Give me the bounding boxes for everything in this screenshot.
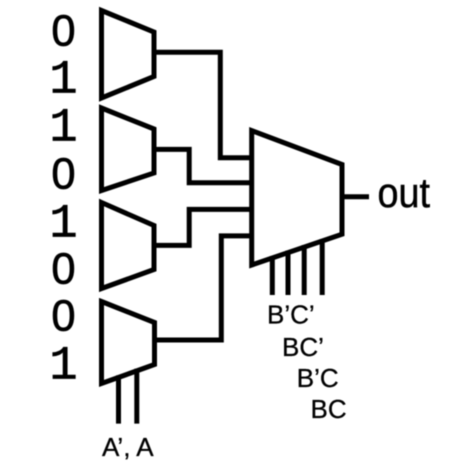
select line B'C' (U5 sel0) [270, 256, 275, 295]
wire U1 out to U5 in0 [154, 52, 252, 158]
wire U5 output [342, 194, 369, 199]
wire U2 out to U5 in1 [154, 149, 252, 182]
svg-text:out: out [378, 169, 431, 216]
svg-text:1: 1 [49, 103, 77, 156]
mux U4 (2:1) [102, 302, 155, 384]
wire U3 out to U5 in2 [154, 209, 252, 245]
wire U4 out to U5 in3 [155, 236, 252, 340]
svg-text:B’C’: B’C’ [267, 299, 315, 329]
svg-text:0: 0 [51, 293, 75, 341]
svg-text:B’C: B’C [297, 363, 339, 393]
svg-text:0: 0 [51, 8, 75, 56]
mux U1 (2:1) [102, 11, 155, 99]
svg-text:1: 1 [49, 341, 77, 394]
select line B'C (U5 sel2) [302, 245, 307, 295]
svg-text:BC’: BC’ [282, 332, 324, 362]
svg-text:A’, A: A’, A [102, 432, 154, 462]
svg-text:BC: BC [311, 394, 347, 424]
svg-text:1: 1 [49, 55, 77, 108]
select line A (U4) [134, 369, 139, 424]
mux U3 (2:1) [102, 203, 155, 289]
select line BC (U5 sel3) [320, 239, 325, 295]
mux U2 (2:1) [102, 108, 155, 191]
svg-text:0: 0 [51, 246, 75, 294]
select line BC' (U5 sel1) [286, 251, 291, 295]
select line A' (U4) [116, 375, 121, 423]
mux U5 (4:1 output mux) [252, 131, 342, 265]
svg-text:1: 1 [49, 199, 77, 252]
svg-text:0: 0 [51, 151, 75, 199]
